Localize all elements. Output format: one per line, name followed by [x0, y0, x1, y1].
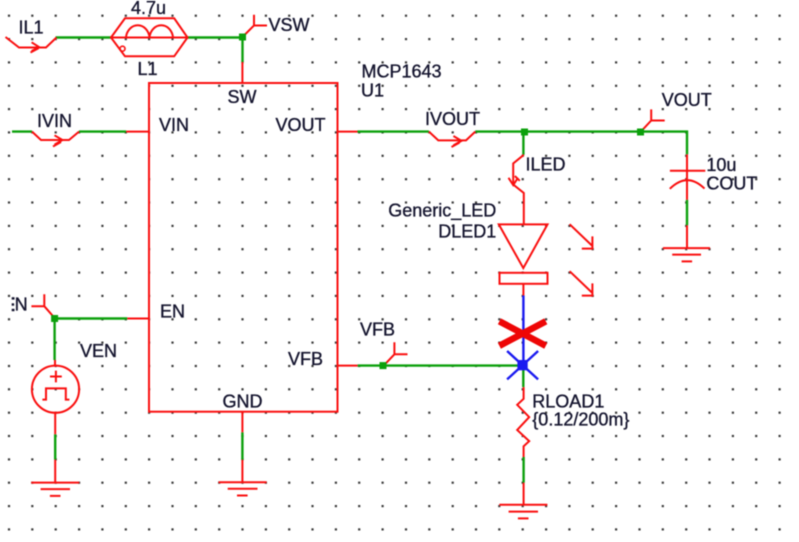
svg-text:L1: L1	[138, 59, 158, 79]
svg-text:VIN: VIN	[159, 115, 189, 135]
svg-text:COUT: COUT	[706, 174, 757, 194]
svg-text:VFB: VFB	[360, 320, 395, 340]
svg-text:4.7u: 4.7u	[131, 0, 166, 18]
svg-text:VOUT: VOUT	[275, 115, 325, 135]
svg-text:IL1: IL1	[19, 18, 44, 38]
svg-text:IVOUT: IVOUT	[425, 109, 480, 129]
svg-text:VOUT: VOUT	[662, 90, 712, 110]
svg-text:VSW: VSW	[269, 15, 310, 35]
svg-text:VEN: VEN	[80, 341, 117, 361]
svg-text:ILED: ILED	[526, 155, 566, 175]
svg-text:10u: 10u	[706, 155, 736, 175]
svg-text:VFB: VFB	[288, 349, 323, 369]
svg-text:Generic_LED: Generic_LED	[388, 200, 496, 221]
svg-text:EN: EN	[160, 302, 185, 322]
svg-text:IVIN: IVIN	[37, 111, 72, 131]
svg-text:DLED1: DLED1	[438, 222, 496, 242]
svg-text:MCP1643: MCP1643	[362, 61, 442, 81]
svg-text:GND: GND	[223, 392, 263, 412]
svg-text:U1: U1	[361, 81, 384, 101]
svg-text:N: N	[15, 295, 28, 315]
svg-text:{0.12/200m}: {0.12/200m}	[532, 409, 629, 429]
svg-text:SW: SW	[228, 87, 257, 107]
